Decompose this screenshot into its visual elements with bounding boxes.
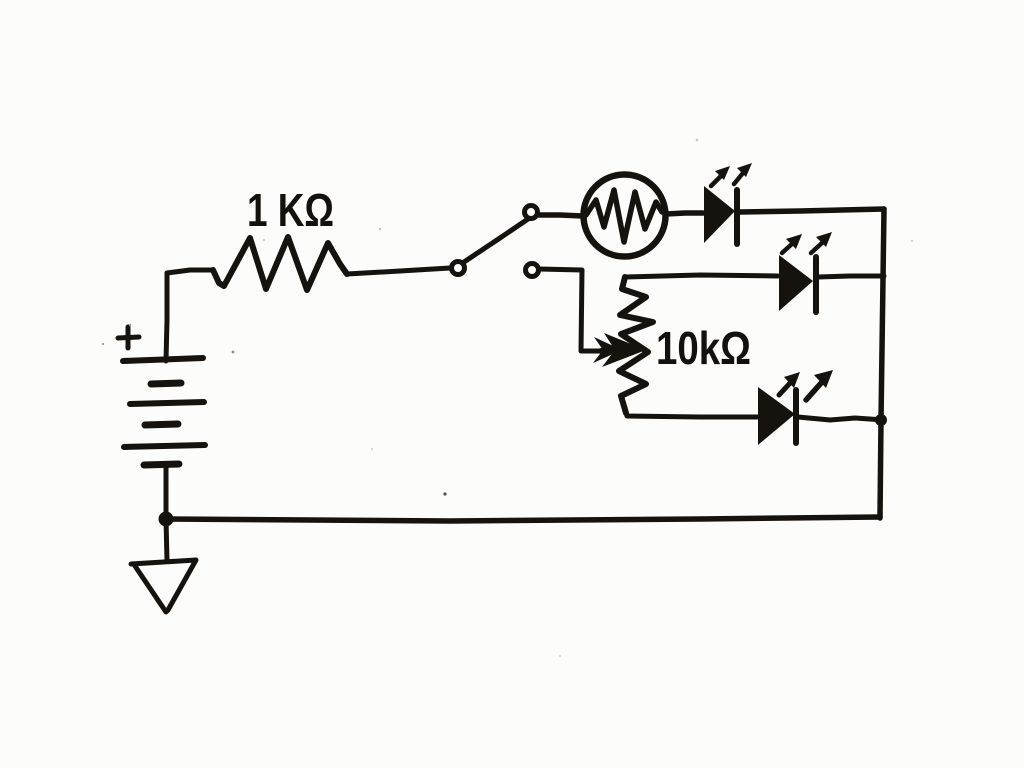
battery B1 plus sign <box>118 327 139 348</box>
lamp DS1 filament zigzag <box>586 190 662 242</box>
LED D3 light arrows <box>779 370 833 400</box>
wire battery positive to resistor R1 <box>166 270 213 361</box>
wire LED D1 to right bus <box>740 209 884 212</box>
LED D3 triangle <box>758 387 795 445</box>
switch S1 throw 1 terminal <box>525 206 538 219</box>
lamp DS1 circle <box>584 175 666 257</box>
svg-text:1 KΩ: 1 KΩ <box>247 184 334 236</box>
wire LED D2 to right bus <box>818 276 884 277</box>
switch S1 common terminal <box>452 262 465 275</box>
wire battery negative to junction <box>164 467 169 519</box>
potentiometer RV1 resistor zigzag <box>619 277 653 413</box>
wire throw 2 to potentiometer wiper <box>539 269 602 351</box>
resistor R1 <box>213 237 347 290</box>
wire throw 1 to lamp DS1 <box>539 215 583 216</box>
right bus vertical wire <box>880 209 884 518</box>
wire LED D3 to right bus <box>798 417 884 420</box>
LED D2 light arrows <box>782 232 832 253</box>
wire potentiometer top to LED D2 <box>625 275 778 277</box>
junction bus and LED D3 wire <box>875 414 887 426</box>
battery B1 plates <box>123 358 205 465</box>
svg-text:10kΩ: 10kΩ <box>656 322 751 374</box>
LED D2 triangle <box>779 255 813 311</box>
switch S1 arm <box>464 219 528 262</box>
LED D2 cathode bar <box>813 257 819 312</box>
potentiometer RV1 wiper arrow <box>593 333 646 367</box>
LED D1 triangle <box>704 186 735 243</box>
switch S1 throw 2 terminal <box>526 264 539 277</box>
junction battery negative and bottom wire <box>159 512 174 527</box>
wire junction to ground <box>166 519 167 561</box>
wire potentiometer bottom to LED D3 <box>626 413 757 417</box>
wire lamp DS1 to LED D1 <box>666 213 703 214</box>
ground symbol <box>131 560 196 612</box>
LED D3 cathode bar <box>793 390 799 443</box>
paper specks <box>102 139 913 657</box>
LED D1 light arrows <box>711 163 752 186</box>
wire R1 to switch common <box>347 268 450 274</box>
bottom return wire <box>166 517 880 521</box>
LED D1 cathode bar <box>734 190 740 244</box>
